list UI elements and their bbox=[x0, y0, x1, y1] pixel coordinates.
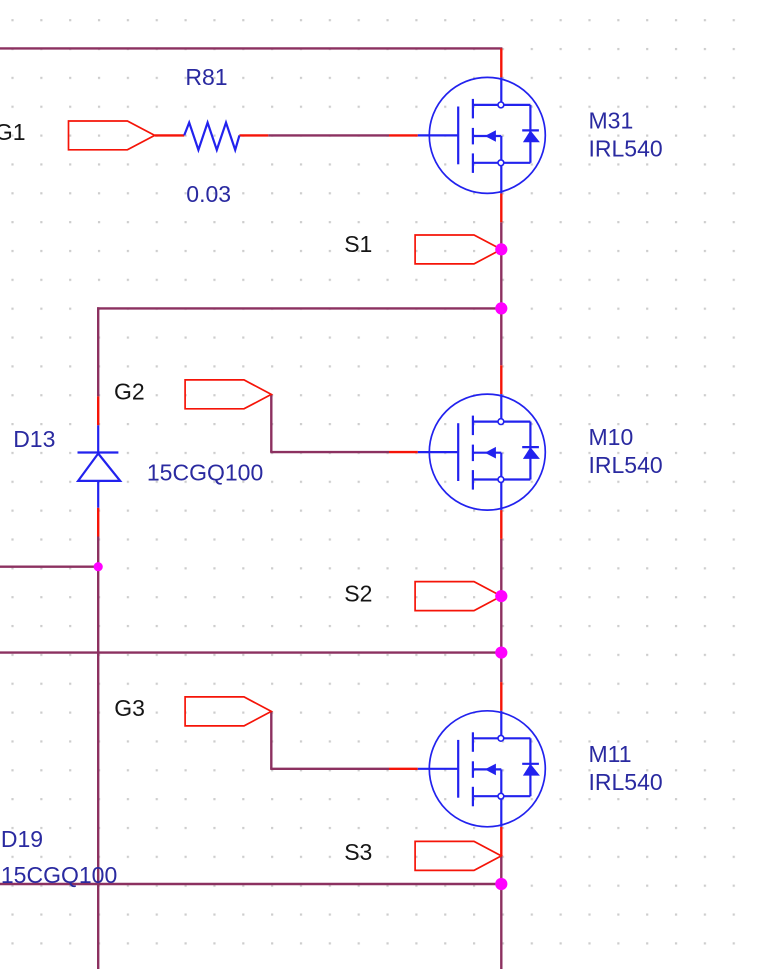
port S3 bbox=[415, 841, 501, 870]
junction at D13 branch bbox=[94, 562, 103, 571]
wire left vertical below D13 bbox=[97, 537, 99, 969]
pin M10 gate bbox=[389, 451, 418, 453]
pin M11 drain bbox=[500, 682, 502, 711]
wire G3 net horizontal to gate bbox=[270, 768, 389, 770]
svg-text:M11: M11 bbox=[589, 741, 632, 767]
svg-text:S1: S1 bbox=[344, 231, 372, 257]
pin D13 top bbox=[97, 396, 99, 425]
wire horizontal bottom net to bus bbox=[0, 883, 501, 885]
svg-text:G1: G1 bbox=[0, 119, 25, 145]
diode D13 bbox=[78, 425, 121, 507]
svg-text:S2: S2 bbox=[344, 581, 372, 607]
junction at bottom net bbox=[495, 878, 507, 890]
pin M31 drain bbox=[500, 48, 502, 77]
port S1 bbox=[415, 235, 501, 264]
svg-text:IRL540: IRL540 bbox=[589, 769, 663, 795]
pin M11 gate bbox=[389, 768, 418, 770]
wire horizontal into node at D13 branch bbox=[0, 566, 98, 568]
port G3 bbox=[185, 697, 271, 726]
wire G3 net vertical drop bbox=[270, 711, 272, 768]
pin M10 source bbox=[500, 510, 502, 539]
junction at mid net bbox=[495, 647, 507, 659]
junction at S2 tip bbox=[495, 590, 507, 602]
wire G1 net: resistor to gate bbox=[268, 134, 389, 136]
wire bus vertical segment below S3 bbox=[500, 856, 502, 969]
pin M31 gate bbox=[389, 134, 418, 136]
junction at S1 tip bbox=[495, 243, 507, 255]
svg-text:IRL540: IRL540 bbox=[589, 135, 663, 161]
pin D13 bottom bbox=[97, 508, 99, 537]
wire left vertical above D13 bbox=[97, 307, 99, 396]
transistor M31 bbox=[418, 77, 546, 193]
svg-text:S3: S3 bbox=[344, 839, 372, 865]
wire G1 net: port to resistor bbox=[155, 134, 185, 136]
pin M11 source bbox=[500, 827, 502, 856]
svg-text:M31: M31 bbox=[589, 107, 634, 133]
svg-text:G2: G2 bbox=[114, 378, 145, 404]
svg-text:IRL540: IRL540 bbox=[589, 452, 663, 478]
wire bus vertical segment S1-S2 bbox=[500, 222, 502, 365]
port G2 bbox=[185, 380, 271, 409]
wire top horizontal net bbox=[0, 47, 502, 49]
junction at left branch bbox=[495, 302, 507, 314]
svg-text:D19: D19 bbox=[1, 826, 43, 852]
port S2 bbox=[415, 582, 501, 611]
wire G2 net horizontal to gate bbox=[270, 451, 389, 453]
svg-text:15CGQ100: 15CGQ100 bbox=[147, 460, 263, 486]
svg-text:D13: D13 bbox=[13, 426, 55, 452]
port G1 bbox=[69, 121, 155, 150]
pin R81 right bbox=[239, 134, 268, 136]
svg-text:M10: M10 bbox=[589, 424, 634, 450]
transistor M10 bbox=[418, 394, 546, 510]
svg-text:R81: R81 bbox=[185, 64, 227, 90]
wire bus vertical segment S2-M11 bbox=[500, 539, 502, 682]
svg-text:G3: G3 bbox=[114, 695, 145, 721]
wire horizontal mid net to bus bbox=[0, 651, 501, 653]
pin M31 source bbox=[500, 193, 502, 222]
resistor R81 bbox=[184, 123, 239, 150]
svg-text:15CGQ100: 15CGQ100 bbox=[1, 862, 117, 888]
wire left branch horizontal to bus bbox=[97, 307, 501, 309]
svg-text:0.03: 0.03 bbox=[186, 181, 231, 207]
pin M10 drain bbox=[500, 365, 502, 394]
transistor M11 bbox=[418, 711, 546, 827]
wire G2 net vertical drop bbox=[270, 394, 272, 452]
